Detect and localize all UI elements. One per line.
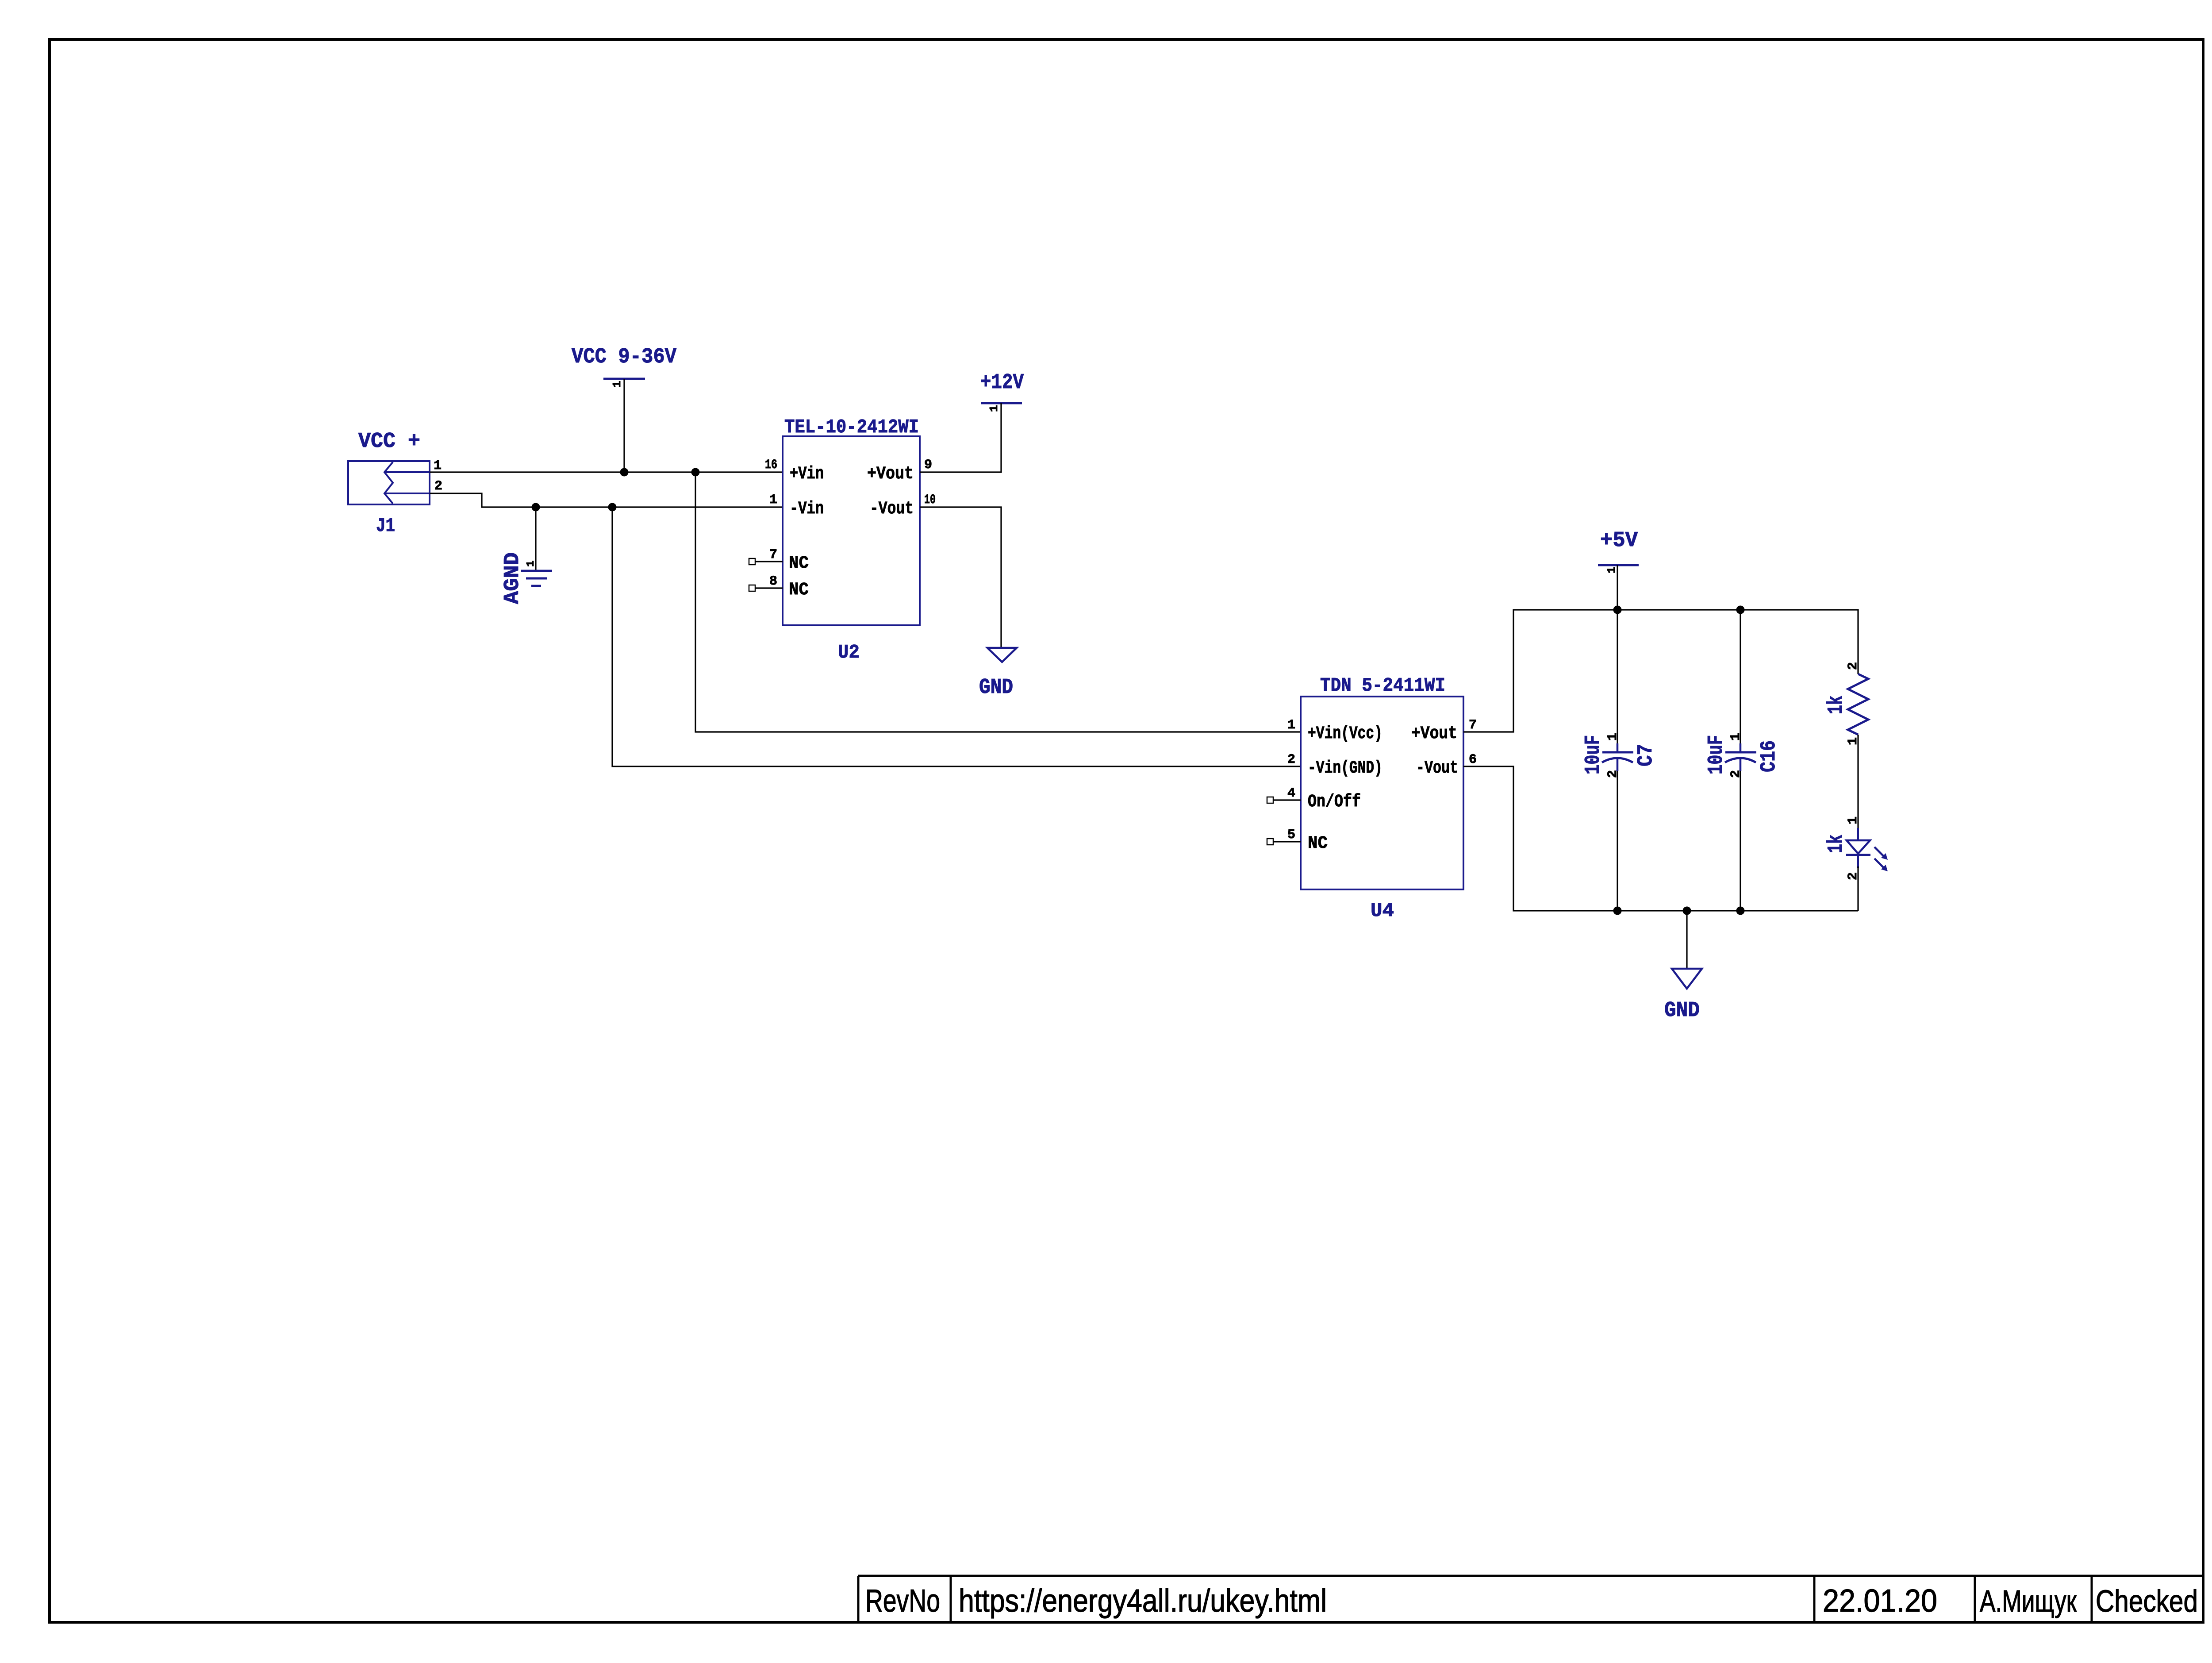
svg-text:NC: NC: [789, 580, 809, 600]
U4 NC pin 5 stub and no-connect square: [1267, 839, 1301, 845]
svg-text:+5V: +5V: [1600, 529, 1638, 553]
svg-text:GND: GND: [979, 676, 1013, 700]
power flag VCC 9-36V: [572, 345, 676, 388]
svg-text:10uF: 10uF: [1582, 735, 1605, 774]
svg-text:16: 16: [765, 458, 777, 473]
junction top rail at C7: [1613, 606, 1622, 614]
svg-text:5: 5: [1287, 828, 1295, 843]
svg-text:NC: NC: [789, 554, 809, 574]
svg-text:1: 1: [987, 405, 1001, 412]
svg-text:6: 6: [1469, 752, 1477, 767]
svg-text:2: 2: [1846, 662, 1861, 670]
wire J1 pin2 to U2 -Vin: [430, 493, 783, 507]
U2 NC pin 7 stub and no-connect square: [749, 558, 783, 565]
svg-text:1: 1: [769, 493, 777, 508]
svg-text:TEL-10-2412WI: TEL-10-2412WI: [784, 416, 919, 439]
svg-text:2: 2: [1605, 770, 1621, 778]
svg-text:1: 1: [525, 561, 537, 567]
wire U2 -Vout to GND: [920, 507, 1001, 648]
svg-text:1: 1: [611, 381, 624, 388]
svg-text:On/Off: On/Off: [1308, 792, 1361, 812]
svg-text:-Vout: -Vout: [1416, 758, 1458, 778]
wire U2 +Vout to +12V flag: [920, 403, 1001, 472]
svg-text:TDN 5-2411WI: TDN 5-2411WI: [1320, 675, 1445, 697]
svg-text:-Vin: -Vin: [790, 499, 824, 519]
junction on +Vin at VCC drop: [620, 468, 629, 477]
svg-text:1k: 1k: [1824, 835, 1848, 853]
svg-text:9: 9: [924, 458, 932, 473]
svg-text:NC: NC: [1308, 834, 1328, 854]
wire resistor to LED: [1857, 735, 1859, 831]
wire C7 bottom lead: [1617, 760, 1618, 911]
power flag +5V: [1598, 529, 1639, 574]
wire U4 +Vout to top +5V rail: [1463, 610, 1858, 732]
junction bottom rail at C16: [1736, 907, 1745, 915]
svg-text:AGND: AGND: [501, 552, 525, 604]
wire U4 -Vout to bottom GND rail: [1463, 766, 1858, 911]
junction bottom rail at GND drop: [1683, 907, 1691, 915]
svg-text:https://energy4all.ru/ukey.htm: https://energy4all.ru/ukey.html: [959, 1583, 1327, 1619]
U4 On/Off pin 4 stub and no-connect square: [1267, 797, 1301, 803]
IC U4 TDN 5-2411WI: [1301, 675, 1463, 922]
wire LED to bottom rail: [1857, 866, 1859, 911]
wire +Vin branch down to U4 pin 1: [695, 472, 1301, 732]
svg-text:+Vin(Vcc): +Vin(Vcc): [1308, 724, 1382, 744]
svg-text:7: 7: [1469, 718, 1477, 733]
svg-text:2: 2: [1287, 752, 1295, 767]
svg-text:1: 1: [1728, 733, 1743, 741]
junction top rail at C16: [1736, 606, 1745, 614]
svg-text:+Vout: +Vout: [867, 464, 914, 484]
svg-text:1: 1: [434, 458, 442, 473]
ground AGND: [501, 507, 552, 604]
svg-text:1: 1: [1605, 733, 1621, 741]
wire -Vin branch down to U4 pin 2: [612, 507, 1301, 766]
svg-text:GND: GND: [1664, 999, 1700, 1023]
svg-text:8: 8: [769, 574, 777, 589]
ground GND main: [1664, 911, 1702, 1023]
wire J1 pin1 to U2 +Vin: [430, 471, 783, 473]
capacitor C7: [1602, 733, 1633, 778]
junction on +Vin at U4 branch: [691, 468, 700, 477]
U2 NC pin 8 stub and no-connect square: [749, 585, 783, 591]
svg-text:1: 1: [1605, 566, 1618, 574]
IC U2 TEL-10-2412WI: [783, 416, 920, 664]
svg-text:2: 2: [1728, 770, 1743, 778]
wire C7 top lead: [1617, 610, 1618, 752]
svg-text:U4: U4: [1371, 900, 1394, 922]
svg-text:+Vin: +Vin: [790, 464, 824, 484]
wire VCC flag to +Vin rail: [623, 379, 625, 472]
svg-text:7: 7: [769, 547, 777, 562]
svg-text:C16: C16: [1757, 740, 1781, 772]
svg-text:-Vout: -Vout: [870, 499, 914, 519]
svg-text:VCC +: VCC +: [358, 430, 420, 454]
svg-text:А.Мищук: А.Мищук: [1980, 1584, 2077, 1618]
wire C16 bottom lead: [1740, 760, 1741, 911]
svg-text:22.01.20: 22.01.20: [1823, 1583, 1937, 1619]
wire C16 top lead: [1740, 610, 1741, 752]
power flag +12V: [980, 371, 1024, 412]
junction on -Vin at AGND drop: [532, 503, 540, 512]
svg-text:Checked: Checked: [2096, 1584, 2198, 1618]
svg-text:10uF: 10uF: [1705, 735, 1728, 774]
title block: [858, 1576, 2203, 1622]
capacitor C16: [1725, 733, 1756, 778]
ground GND at U2 output: [979, 648, 1017, 700]
svg-text:4: 4: [1287, 786, 1295, 801]
junction on -Vin at U4 branch: [608, 503, 617, 512]
svg-text:1k: 1k: [1824, 696, 1848, 714]
wire +5V flag to +5V rail: [1617, 565, 1618, 610]
svg-text:1: 1: [1287, 718, 1295, 733]
svg-text:VCC 9-36V: VCC 9-36V: [572, 345, 676, 369]
svg-text:-Vin(GND): -Vin(GND): [1308, 758, 1382, 778]
svg-text:C7: C7: [1634, 744, 1658, 766]
connector J1: [348, 461, 430, 537]
svg-text:U2: U2: [838, 642, 860, 664]
LED D: [1846, 816, 1888, 880]
svg-text:RevNo: RevNo: [865, 1583, 940, 1619]
svg-text:J1: J1: [376, 515, 395, 537]
svg-text:+12V: +12V: [980, 371, 1024, 395]
svg-text:1: 1: [1846, 816, 1861, 824]
resistor R 1k: [1846, 662, 1868, 745]
svg-text:2: 2: [434, 479, 442, 494]
svg-text:+Vout: +Vout: [1411, 724, 1457, 744]
svg-text:10: 10: [924, 493, 936, 508]
junction bottom rail at C7: [1613, 907, 1622, 915]
